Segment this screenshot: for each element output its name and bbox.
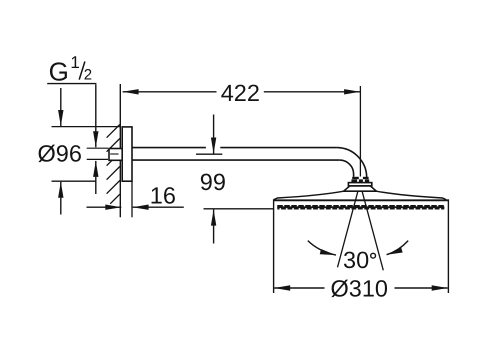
spray angle right line <box>362 191 383 270</box>
nozzle face band midline <box>277 206 444 208</box>
dimension O310 line right segment <box>395 287 448 289</box>
nozzle face dashed band upper row <box>277 205 444 207</box>
nozzle face dashed band lower row <box>277 207 444 209</box>
head rim top edge <box>273 199 449 201</box>
G 1/2 label <box>49 53 93 86</box>
dimension O310 line left segment <box>274 287 324 289</box>
G 1/2 fraction slash <box>79 62 85 80</box>
stub bottom extension line <box>87 158 108 160</box>
spray angle right arc arrow <box>387 241 409 255</box>
dimension O96 top extension line <box>52 126 121 128</box>
dimension O96 up arrow <box>60 182 62 215</box>
svg-text:16: 16 <box>150 183 176 209</box>
spray angle left arc arrow <box>308 241 336 256</box>
nut body band <box>351 179 369 182</box>
svg-text:2: 2 <box>84 67 92 84</box>
dimension 99 down arrow to arm centerline <box>213 115 215 154</box>
degree symbol <box>371 253 376 258</box>
G 1/2 underline <box>47 83 96 85</box>
arm bend inner curve <box>340 160 354 177</box>
dimension O96 down arrow <box>60 88 62 126</box>
dimension 422 line left segment <box>123 91 217 93</box>
G 1/2 leader arrow up to stub bottom <box>95 161 97 194</box>
wall hatching <box>107 125 120 204</box>
G1/2 threaded stub <box>109 149 123 161</box>
svg-text:Ø310: Ø310 <box>331 275 389 301</box>
svg-text:99: 99 <box>200 169 226 195</box>
wall line <box>119 84 121 217</box>
neck base trapezoid <box>344 186 377 191</box>
head dome left profile <box>274 191 344 199</box>
dimension 16 line right segment <box>133 206 184 208</box>
svg-text:Ø96: Ø96 <box>38 140 82 166</box>
shower arm bottom line <box>132 159 340 161</box>
neck collar <box>348 183 371 186</box>
arm bend outer curve <box>337 148 367 178</box>
dimension O96 bottom extension line <box>52 180 97 182</box>
nut top band <box>352 177 368 179</box>
spray angle left line <box>338 191 358 267</box>
O310 right extension line + rim right edge <box>447 199 449 293</box>
head dome right profile <box>376 191 446 199</box>
dimension 422 right extension line <box>359 86 361 177</box>
wall plate (escutcheon, side view) <box>122 127 132 181</box>
stub top extension line <box>87 147 108 149</box>
svg-text:1: 1 <box>70 53 79 72</box>
svg-text:30: 30 <box>343 247 369 273</box>
arm centerline extension <box>196 153 222 155</box>
svg-text:422: 422 <box>221 80 260 106</box>
stub centerline dash <box>110 153 118 155</box>
dimension 99 up arrow to face <box>213 210 215 244</box>
plate right edge extension line <box>131 181 133 217</box>
dimension 99 bottom extension line <box>204 208 274 210</box>
dimension 16 line left segment <box>87 206 122 208</box>
dimension 422 line right segment <box>264 91 360 93</box>
shower arm top line <box>132 147 206 149</box>
G 1/2 leader arrow down to stub <box>95 84 97 147</box>
svg-text:G: G <box>49 56 69 86</box>
O310 left extension line + rim left edge <box>273 199 275 293</box>
